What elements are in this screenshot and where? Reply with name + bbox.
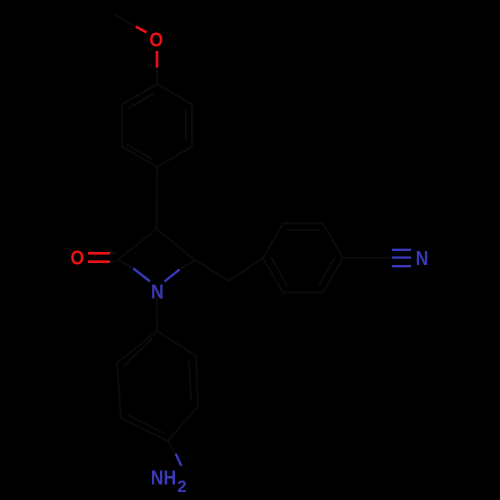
ring2 aromatic inner line lower-left [272, 258, 288, 286]
svg-text:O: O [149, 29, 163, 51]
bond ring2-nitrileC [343, 257, 383, 259]
nitrile triple bond blue line top [392, 249, 411, 251]
svg-text:N: N [416, 247, 429, 269]
bond O-C1' black half (ring side) [156, 68, 158, 85]
ring1 aromatic inner line C2'-C3' [185, 111, 187, 141]
svg-text:O: O [71, 246, 85, 268]
bond N1-C4 black half [180, 260, 196, 270]
bond ring3-NH2 blue half [176, 454, 182, 466]
ring3 aromatic inner line bottom-left [128, 415, 163, 433]
bond N1-C4 blue half [165, 270, 180, 282]
carbonyl C=O red line upper [88, 252, 110, 255]
lactam bond C2-C3 [118, 229, 157, 260]
ring1 benzene (methoxyphenyl) outline [122, 84, 192, 167]
bond O-C1' red half (oxygen side) [156, 51, 159, 68]
ring2 benzene (cyanophenyl) outline [263, 223, 343, 292]
bond C4-CH2 linker [195, 260, 229, 281]
ring1 aromatic inner line C4'-C5' [127, 145, 153, 160]
bond N1-ring3 (aminophenyl) [156, 291, 158, 331]
nitrile triple bond blue line bottom [392, 265, 411, 267]
ring3 aromatic inner line right [189, 361, 191, 400]
svg-text:N: N [151, 280, 164, 302]
bond CH3-O black half (methyl carbon side) [116, 15, 136, 27]
nitrile C black third of middle line [383, 257, 392, 259]
ring2 aromatic inner line top [288, 229, 320, 231]
bond ring3-NH2 black half [168, 441, 176, 454]
carbonyl C=O black half continuation upper [110, 252, 116, 254]
ring3 aromatic inner line top-left [124, 339, 152, 366]
nitrile triple bond blue line middle [392, 256, 411, 258]
ring2 aromatic inner line lower-right [319, 258, 335, 286]
svg-text:NH: NH [151, 467, 176, 489]
bond N1-C2 blue half [134, 269, 151, 282]
lactam bond C3-C4 [157, 229, 196, 260]
carbonyl C=O black half continuation lower [110, 261, 116, 263]
bond N1-C2 black half [118, 260, 134, 269]
carbonyl C=O red line lower [88, 260, 110, 263]
bond C4'-C3 (ring1 to lactam C3) [156, 167, 159, 229]
ring3 benzene (aminophenyl) outline [117, 331, 198, 441]
bond CH2-ring2 ipso [229, 258, 263, 281]
ring1 aromatic inner line C6'-C1' [128, 94, 154, 109]
svg-text:2: 2 [177, 477, 186, 496]
bond CH3-O red half (oxygen side) [136, 27, 147, 33]
